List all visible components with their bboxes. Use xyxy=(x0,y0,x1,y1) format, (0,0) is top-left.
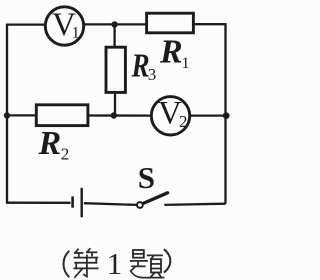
svg-text:S: S xyxy=(138,160,155,195)
node A (junction of R3 branch on top wire) xyxy=(111,21,117,27)
svg-text:2: 2 xyxy=(179,112,188,131)
wire middle-right segment (V2 to right wire) xyxy=(190,114,226,116)
wire battery to switch xyxy=(84,203,137,205)
svg-text:R: R xyxy=(131,47,150,85)
svg-text:R: R xyxy=(159,33,183,70)
caption character TI (题) xyxy=(131,250,164,278)
wire middle-left segment xyxy=(7,114,37,116)
svg-text:1: 1 xyxy=(107,246,123,280)
node B (junction R3 with middle wire) xyxy=(111,112,117,118)
resistor R2 xyxy=(36,105,88,164)
svg-text:1: 1 xyxy=(72,24,80,41)
voltmeter U2 (V2) xyxy=(151,96,189,135)
resistor R1 xyxy=(147,13,194,72)
wire left vertical xyxy=(6,24,8,204)
battery BT1 xyxy=(73,188,82,217)
node D (junction middle wire with right wire) xyxy=(223,112,230,119)
wire bottom-left segment xyxy=(7,202,71,204)
wire top-right segment (R1 to corner) xyxy=(193,23,226,25)
caption close parenthesis xyxy=(164,249,171,272)
wire middle segment (R2 to V2) xyxy=(88,114,152,116)
wire top-middle segment (V1 to R1) xyxy=(84,23,147,25)
svg-text:1: 1 xyxy=(182,55,190,72)
wire top-left segment xyxy=(7,23,45,25)
wire R3 top branch xyxy=(113,25,115,49)
svg-text:R: R xyxy=(38,125,62,162)
wire right vertical xyxy=(224,24,226,204)
node C (junction on left wire) xyxy=(4,112,10,118)
wire R3 bottom branch xyxy=(114,92,116,116)
wire bottom-right segment xyxy=(164,204,225,205)
caption character DI (第) xyxy=(74,249,97,277)
resistor R3 xyxy=(106,47,156,93)
switch S xyxy=(137,160,168,208)
voltmeter U1 (V1) xyxy=(45,7,83,45)
svg-text:3: 3 xyxy=(148,65,157,84)
caption open parenthesis xyxy=(64,251,70,277)
svg-text:2: 2 xyxy=(61,144,70,163)
